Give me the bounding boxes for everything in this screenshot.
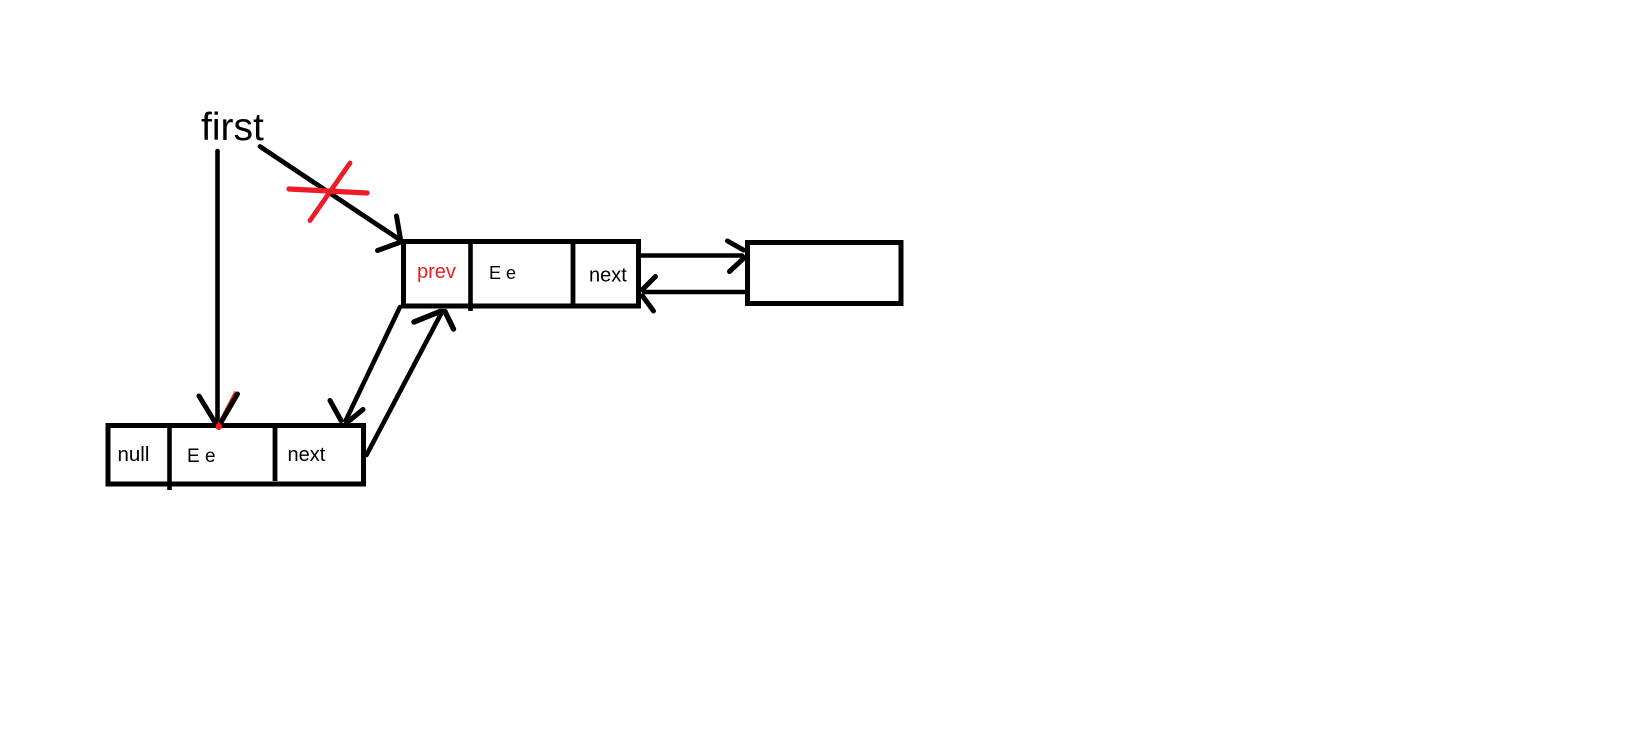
arrowhead node2-to-node3 upper wing	[728, 241, 744, 250]
red X cross-out horizontal stroke	[289, 189, 367, 193]
node2 divider Ee/next	[571, 244, 576, 304]
svg-text:next: next	[589, 265, 627, 287]
red dot at node1 arrow tip	[216, 423, 222, 430]
svg-text:E e: E e	[187, 446, 216, 467]
node2 box outline	[404, 242, 639, 307]
arrowhead first-to-node2 upper wing	[397, 216, 401, 239]
wire node2-to-node1 diagonal shaft	[346, 307, 401, 421]
svg-text:prev: prev	[417, 261, 456, 283]
node1 divider Ee/next	[273, 428, 278, 481]
arrowhead first-to-node2 lower wing	[378, 243, 400, 251]
red stroke under right wing of node1 arrowhead	[219, 393, 236, 425]
node1 divider null/Ee (tail below box)	[167, 428, 172, 490]
arrowhead node3-to-node2 upper wing	[643, 277, 656, 290]
svg-text:next: next	[288, 444, 326, 466]
wire first-to-node1 vertical shaft	[215, 151, 220, 421]
svg-text:first: first	[201, 106, 264, 149]
arrowhead first-to-node1 left wing	[199, 396, 215, 422]
arrowhead node3-to-node2 lower wing	[643, 296, 654, 311]
arrowhead node2-to-node1 left wing	[330, 401, 341, 421]
node2 divider prev/Ee (tail below box)	[468, 244, 473, 311]
arrowhead node2-to-node3 lower wing	[730, 258, 745, 272]
node1 box outline	[108, 426, 364, 485]
arrowhead first-to-node1 right wing	[222, 394, 238, 422]
svg-text:null: null	[118, 443, 150, 466]
arrowhead node1-to-node2 right wing	[445, 312, 454, 330]
arrowhead node1-to-node2 left wing	[414, 312, 440, 323]
wire node1-to-node2 diagonal shaft	[367, 311, 443, 455]
node3 box outline	[748, 243, 902, 304]
arrowhead node2-to-node1 right wing	[347, 410, 363, 423]
svg-text:E e: E e	[489, 263, 516, 283]
wire node2-to-node3 shaft	[640, 253, 742, 258]
wire first-to-node2 diagonal shaft	[260, 147, 401, 241]
wire node3-to-node2 shaft	[644, 290, 746, 295]
red X cross-out diagonal stroke	[310, 163, 350, 221]
